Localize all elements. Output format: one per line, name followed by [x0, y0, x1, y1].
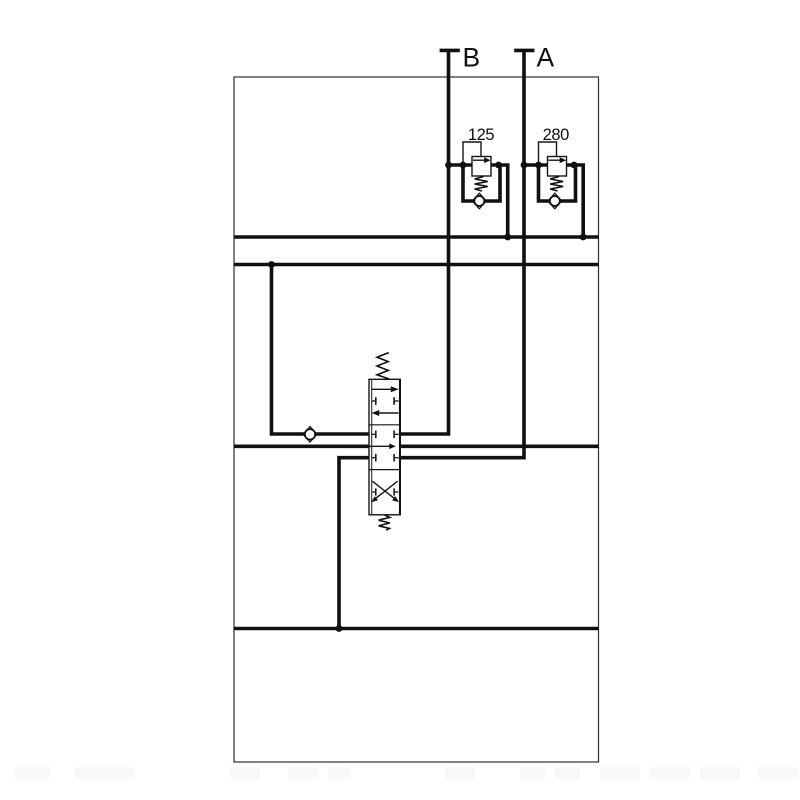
relief valve RV2 body [548, 157, 567, 177]
directional valve V1 divider 2 [369, 469, 400, 471]
wire bus line 4 [234, 627, 599, 631]
V1 position 1 arrow right [372, 388, 392, 390]
wire bus line 3 right segment [400, 444, 598, 448]
V1 position 2 blocked port right lower [394, 457, 399, 459]
wire feed branch from bus 2 [272, 265, 370, 435]
spring RV2 [550, 177, 563, 192]
wire bus line 3 left segment [234, 444, 369, 448]
junction dot RV2 loop right [571, 162, 578, 169]
V1 position 3 blocked port right [394, 491, 398, 493]
spring V1 bottom [379, 515, 390, 530]
directional valve V1 right edge emphasis [399, 379, 401, 515]
check valve RV1 anti-cavitation [474, 196, 484, 206]
wire port B line [400, 50, 448, 434]
wire bus line 1 [234, 235, 599, 239]
check valve RV2 diamond [548, 193, 562, 209]
junction dot RV1 at bus 1 [504, 234, 511, 241]
directional valve V1 divider 1 [369, 424, 400, 426]
spring V1 top [377, 353, 389, 380]
relief valve RV1 flow arrow [473, 159, 485, 161]
junction dot RV1 loop left [460, 162, 467, 169]
scan smudges (decorative) [15, 767, 50, 779]
junction dot return branch at bus 4 [336, 625, 343, 632]
check valve RV1 diamond [473, 193, 487, 209]
port B terminal bar [440, 49, 460, 53]
check valve CV1 [305, 429, 315, 439]
V1 position 1 arrow left [379, 412, 399, 414]
wire RV2 main line to bus [524, 165, 583, 237]
directional valve V1 body [369, 379, 400, 515]
V1 position 1 blocked port right [394, 400, 399, 402]
V1 position 2 blocked port right upper [394, 433, 399, 435]
junction dot RV1 loop right [495, 162, 502, 169]
directional valve V1 inner left line [371, 379, 373, 515]
svg-text:B: B [463, 43, 481, 73]
junction dot feed branch at bus 2 [268, 261, 275, 268]
spring RV1 [475, 177, 488, 192]
junction dot RV1 port line [445, 162, 452, 169]
wire port A line [400, 50, 524, 457]
port A terminal bar [514, 49, 534, 53]
wire RV1 main line to bus [449, 165, 508, 237]
pilot line RV1 [463, 142, 481, 164]
V1 position 1 blocked port left [372, 400, 376, 402]
V1 position 2 blocked port left upper [372, 433, 376, 435]
junction dot RV2 loop left [535, 162, 542, 169]
V1 position 2 blocked port left lower [372, 457, 376, 459]
junction dot RV2 port line [521, 162, 528, 169]
relief valve RV2 flow arrow [549, 159, 561, 161]
wire return branch to bus 4 [339, 458, 369, 629]
check valve RV2 anti-cavitation [550, 196, 560, 206]
wire bus line 2 [234, 263, 599, 267]
check valve CV1 diamond [303, 427, 317, 442]
svg-text:A: A [537, 43, 555, 73]
relief valve RV1 body [472, 157, 491, 177]
V1 position 3 cross arrow 2 [375, 481, 397, 498]
enclosure frame [234, 77, 599, 762]
pilot line RV2 [539, 142, 557, 164]
V1 position 3 blocked port left [372, 491, 376, 493]
V1 position 3 cross arrow 1 [372, 481, 394, 498]
V1 position 2 through passage with arrow [369, 445, 390, 447]
wire RV2 bypass loop [539, 165, 576, 201]
wire RV1 bypass loop [463, 165, 500, 201]
junction dot RV2 at bus 1 [580, 234, 587, 241]
